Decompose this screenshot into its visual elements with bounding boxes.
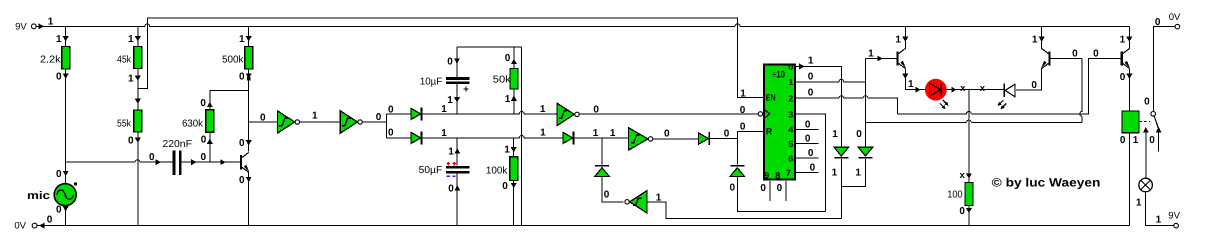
terminal 0V bottom-left [14,215,52,232]
diode D2 [411,131,422,144]
svg-text:0: 0 [788,62,793,72]
wire base net to Q2 base [866,58,898,60]
svg-text:1: 1 [895,34,901,45]
resistor R4 55k [134,110,142,132]
svg-text:1: 1 [1032,34,1038,45]
wire Q3 collector drop [1041,26,1043,49]
terminal 9V left [15,16,54,32]
wire U5 input from OR line [647,202,841,219]
wire C2 bottom to top branch [456,84,458,114]
wire C2 top connection [456,47,458,77]
wire 500k top drop [248,26,250,46]
svg-text:0: 0 [128,136,134,147]
svg-text:0: 0 [388,128,394,139]
svg-text:50k: 50k [493,75,512,86]
wire splitter vertical [386,114,388,138]
svg-text:0: 0 [448,184,454,195]
svg-text:R: R [766,126,773,136]
svg-text:0: 0 [447,56,453,67]
svg-text:0: 0 [1120,135,1126,146]
wire node to inverter U1 input [249,121,278,123]
wire pin6 stub [796,157,819,159]
svg-text:0: 0 [388,104,394,115]
svg-text:0V: 0V [1169,12,1181,23]
svg-text:0: 0 [777,183,783,194]
IC U6 divide-by-10 counter [758,62,795,181]
capacitor C2 10uF [446,77,470,92]
lamp L1 [1139,178,1153,192]
wire U4 out to diode D5 [653,138,699,140]
svg-text:© by luc Waeyen: © by luc Waeyen [992,176,1101,190]
wire Q2 emitter to LED line [905,68,926,89]
wire C3 top from bottom branch [456,138,458,166]
svg-text:1: 1 [540,104,546,115]
svg-text:1: 1 [48,16,54,27]
svg-text:0: 0 [201,152,207,163]
inverter U2 [340,111,362,133]
wire 0V ground bus [37,225,1130,227]
svg-text:5: 5 [788,139,793,149]
svg-text:1: 1 [832,168,838,179]
svg-text:0: 0 [664,129,670,140]
svg-text:0: 0 [808,88,814,99]
svg-text:100k: 100k [486,166,508,177]
svg-text:1: 1 [1133,135,1139,146]
wire Q4 emitter to relay [1128,68,1130,111]
diode D6 [730,165,744,176]
wire mic bottom to 0V [65,206,67,226]
svg-text:0: 0 [805,119,811,130]
resistor R5 630k [206,110,214,132]
svg-text:0: 0 [760,183,766,194]
svg-text:0: 0 [959,206,965,217]
capacitor C3 50uF [446,162,470,177]
microphone MIC1 [54,183,77,206]
svg-text:x: x [960,170,966,181]
svg-text:0: 0 [505,53,511,64]
switch S1 [1139,96,1161,151]
transistor Q4 [1122,49,1130,69]
svg-text:0: 0 [239,72,245,83]
svg-text:7: 7 [786,168,791,178]
wire LED line to junction [942,89,1004,91]
svg-text:0: 0 [810,163,816,174]
wire base net to line122 [866,120,1083,122]
svg-text:1: 1 [441,128,447,139]
inverter U4 [629,128,653,150]
svg-text:0: 0 [740,121,746,132]
wire R pin net with diode D6 [737,131,763,164]
wire long vertical to 0V [521,47,523,226]
wire pin5 stub [796,143,819,145]
svg-text:0: 0 [1031,80,1037,91]
svg-text:1: 1 [1120,34,1126,45]
svg-text:1: 1 [540,127,546,138]
diode D4 [595,165,609,176]
svg-text:0: 0 [604,189,610,200]
LED D10 (white) [998,83,1015,109]
svg-text:0: 0 [260,113,266,124]
wire white LED to Q3 emitter [1016,68,1041,90]
svg-text:1: 1 [1156,214,1162,225]
svg-text:1: 1 [505,94,511,105]
svg-text:0: 0 [56,204,62,215]
resistor R8 100 [965,183,973,206]
resistor R7 100k [510,157,518,181]
wire 630k top to collector node [210,90,249,110]
wire down branch to D4 [601,138,603,164]
wire pin1 and base net [796,79,866,81]
wire switch left contact to lamp [1145,132,1147,178]
wire top branch node line [423,112,558,114]
svg-text:0: 0 [47,215,53,226]
wire audio signal line [66,160,241,162]
svg-text:1: 1 [128,74,134,85]
svg-text:45k: 45k [117,54,132,65]
wire pin3 feedback [796,114,826,211]
svg-text:0: 0 [1149,135,1155,146]
svg-text:1: 1 [56,34,62,45]
wire feedback top bus to bias node [138,18,763,97]
svg-text:9V: 9V [1168,211,1180,222]
wire 100k bottom to 0V [513,181,515,226]
svg-text:0: 0 [376,112,382,123]
svg-text:0: 0 [1120,72,1126,83]
svg-text:EN: EN [766,93,776,103]
svg-text:0: 0 [740,105,746,116]
wire pin2 to Q4 base [796,59,1122,114]
diode D5 [699,132,710,145]
wire Q4 collector from rail [1128,26,1130,49]
relay coil K1 [1122,111,1139,133]
wire 100k top from bottom branch [513,138,515,157]
transistor Q3 (mirrored) [1041,49,1049,69]
wire 500k bottom collector node [248,69,250,152]
diode D7 [834,147,848,158]
svg-text:0: 0 [808,148,814,159]
wire D6 down to row [737,176,825,211]
wire 0V top-right feed to switch [1153,27,1175,112]
wire cap C2 top rail [457,46,522,48]
wire 55k bottom to 0V [137,132,139,226]
svg-text:220nF: 220nF [162,139,192,150]
wire D7 bottom to OR line [840,159,842,218]
wire D4 to inverter U5 input [602,176,624,201]
svg-text:0: 0 [724,129,730,140]
wire 100ohm to 0V [968,206,970,226]
resistor R3 500k [245,47,253,70]
transistor Q1 [241,153,249,173]
svg-text:1: 1 [788,77,793,87]
svg-text:0V: 0V [14,221,26,232]
wire U2 out to splitter [362,121,386,123]
inverter U1 [277,111,299,133]
diode D3 [563,131,574,144]
resistor R6 50k [510,68,518,89]
wire 2.2k bottom to mic node [65,69,67,184]
svg-text:500k: 500k [222,54,244,65]
wire U1 out to U2 in [300,121,341,123]
svg-text:630k: 630k [182,118,204,129]
svg-text:100: 100 [947,190,963,201]
wire 50k bottom to top branch [513,89,515,114]
wire 45k top drop [137,26,139,46]
svg-text:0: 0 [808,71,814,82]
svg-text:2: 2 [788,94,793,104]
wire 630k bottom branch [209,132,211,162]
wire after D3 [575,137,629,139]
svg-text:0: 0 [1144,96,1150,107]
svg-text:x: x [980,83,986,94]
svg-text:1: 1 [239,34,245,45]
wire 2.2k top drop [65,26,67,46]
svg-text:1: 1 [740,88,746,99]
svg-text:0: 0 [239,175,245,186]
wire D8 bottom join [841,159,865,187]
svg-text:2.2k: 2.2k [40,54,62,65]
svg-text:1: 1 [128,34,134,45]
inverter U3 [557,103,579,125]
wire pin4 stub [796,128,819,130]
svg-text:÷10: ÷10 [772,70,785,81]
svg-text:1: 1 [868,49,874,60]
svg-text:3: 3 [788,109,793,119]
inverter U5 (left-facing) [625,191,647,213]
wire C3 bottom to 0V [456,173,458,225]
svg-text:0: 0 [502,181,508,192]
diode D8 [858,147,872,158]
wire 45k-55k junction node [137,69,139,111]
wire 9V rail [36,24,1129,26]
diode D1 [411,107,422,120]
svg-text:8: 8 [775,170,780,180]
resistor R2 45k [134,47,142,69]
svg-text:4: 4 [788,125,793,135]
svg-text:0: 0 [1072,49,1078,60]
wire Q1 emitter to 0V [248,172,250,225]
svg-text:1: 1 [447,95,453,106]
LED D9 (red) [925,79,949,109]
wire Q2 collector drop [904,26,906,49]
wire 50k top drop [513,47,515,68]
svg-text:1: 1 [593,128,599,139]
svg-text:50µF: 50µF [419,165,443,176]
svg-text:0: 0 [56,169,62,180]
svg-text:0: 0 [805,134,811,145]
svg-text:1: 1 [808,55,814,66]
wire pin0 to diode D7 [796,66,842,147]
wire bottom branch to diode D2 [387,137,411,139]
svg-text:6: 6 [788,154,793,164]
terminal 9V bottom-right [1168,211,1180,228]
svg-text:10µF: 10µF [420,76,442,87]
svg-text:55k: 55k [117,118,132,129]
wire Q3 base line down [1049,59,1082,123]
svg-text:0: 0 [593,104,599,115]
svg-text:9: 9 [764,170,769,180]
wire pin7 stub [796,172,819,174]
svg-text:0: 0 [1093,49,1099,60]
resistor R1 2.2k [62,47,70,70]
svg-text:0: 0 [200,98,206,109]
svg-text:0: 0 [201,135,207,146]
junction dot collector node [247,77,250,80]
wire D5 to R-net vertical [710,138,737,140]
transistor Q2 [898,49,906,69]
svg-text:1: 1 [504,145,510,156]
wire top branch to diode D1 [387,113,411,115]
svg-text:0: 0 [239,138,245,149]
svg-text:1: 1 [610,128,616,139]
wire U3 out to clock pin [579,113,758,115]
capacitor C1 220nF [173,151,182,175]
svg-text:0: 0 [149,152,155,163]
wire IC bottom stub pin9 [769,181,771,201]
terminal 0V top-right [1155,12,1181,29]
svg-text:1: 1 [448,147,454,158]
svg-text:1: 1 [832,129,838,140]
svg-text:1: 1 [1136,198,1142,209]
svg-text:9V: 9V [15,22,27,33]
svg-text:0: 0 [56,72,62,83]
wire relay bottom to 0V [1128,133,1130,226]
wire lamp to 9V terminal [1146,192,1174,226]
svg-text:1: 1 [855,168,861,179]
svg-text:x: x [960,83,966,94]
svg-text:mic: mic [27,190,50,202]
svg-text:1: 1 [908,79,914,90]
svg-text:1: 1 [312,111,318,122]
wire junction down to 100ohm [968,90,970,183]
svg-text:0: 0 [856,129,862,140]
wire base net vertical [865,59,867,148]
svg-text:0: 0 [730,183,736,194]
wire bottom branch node line [423,136,563,138]
wire IC bottom stub pin8 [785,181,787,201]
svg-text:0: 0 [1155,17,1161,28]
